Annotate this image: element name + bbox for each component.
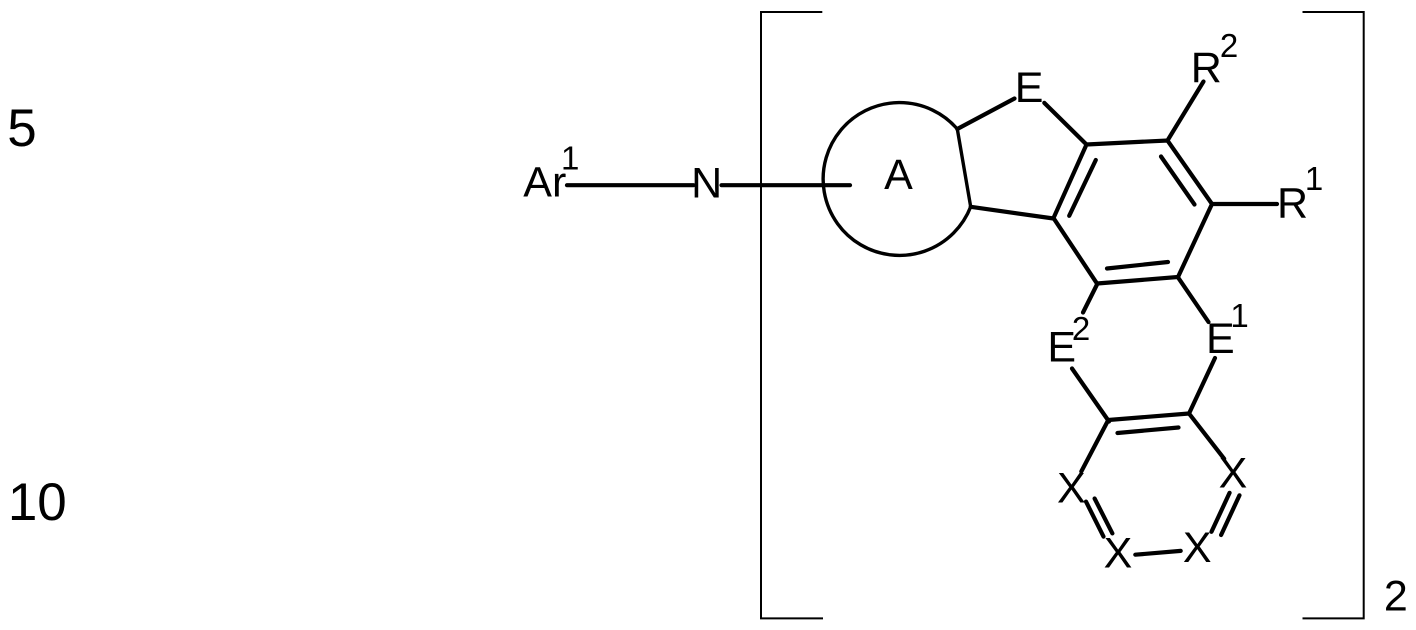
- svg-text:1: 1: [561, 140, 579, 177]
- ring A circle with fused chord: [823, 103, 971, 256]
- svg-text:X: X: [1057, 464, 1086, 512]
- svg-text:R: R: [1277, 180, 1308, 228]
- wire bond Ar1-N: [567, 183, 694, 187]
- X-ring double bond XbottomR-Xright line a: [1212, 493, 1230, 532]
- svg-text:5: 5: [7, 99, 36, 158]
- benzene double bond inner line left: [1069, 160, 1096, 216]
- svg-text:Ar: Ar: [523, 159, 566, 207]
- X-ring double bond XbottomR-Xright line b: [1221, 495, 1239, 535]
- svg-text:X: X: [1219, 449, 1248, 497]
- X-ring bond XbottomL-XbottomR: [1135, 551, 1180, 555]
- svg-text:2: 2: [1072, 310, 1090, 347]
- svg-text:1: 1: [1305, 160, 1323, 197]
- bond benzene-R1: [1212, 202, 1277, 206]
- benzene ring outline: [1054, 141, 1213, 284]
- bond E-benzene: [1044, 103, 1086, 145]
- X-ring double bond Xleft-XbottomL line b: [1095, 499, 1113, 534]
- right bracket: [1303, 12, 1364, 618]
- bond E2-Xring: [1072, 369, 1109, 422]
- svg-text:10: 10: [8, 473, 67, 532]
- svg-text:2: 2: [1220, 27, 1238, 64]
- svg-text:R: R: [1191, 44, 1222, 92]
- bond ringA-benzeneL: [971, 207, 1054, 219]
- bond benzene-E2: [1083, 285, 1097, 313]
- benzene double bond inner line bottom: [1107, 262, 1168, 269]
- bond E1-Xring: [1190, 358, 1216, 413]
- svg-text:X: X: [1104, 530, 1133, 578]
- X-ring double bond Xleft-XbottomL line a: [1086, 502, 1104, 537]
- svg-text:N: N: [691, 160, 722, 208]
- bond benzene-R2: [1168, 82, 1204, 141]
- svg-text:E: E: [1015, 64, 1044, 112]
- wire bond N-ringA: [722, 183, 851, 187]
- benzene double bond inner line top-right: [1161, 157, 1195, 205]
- left bracket: [761, 12, 823, 618]
- bond ringA-E: [957, 99, 1014, 130]
- X-ring bond topR-Xright: [1189, 414, 1224, 459]
- X-ring bond topL-Xleft: [1081, 420, 1108, 472]
- X-ring top edge double bond: [1108, 414, 1189, 421]
- svg-text:1: 1: [1230, 297, 1248, 334]
- svg-text:2: 2: [1384, 573, 1408, 621]
- X-ring top edge inner line: [1118, 428, 1179, 434]
- svg-text:X: X: [1183, 524, 1212, 572]
- svg-text:A: A: [884, 151, 913, 199]
- bond benzene-E1: [1178, 278, 1208, 322]
